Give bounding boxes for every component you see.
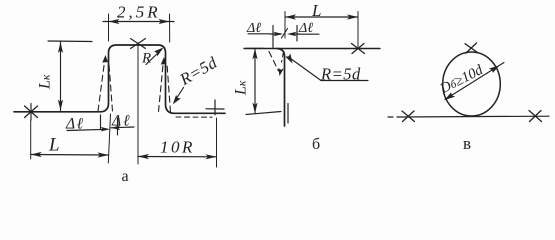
node X mark at hat top <box>131 39 146 49</box>
svg-text:в: в <box>463 134 471 153</box>
dashed hook (right leg, pre-bend position) <box>159 60 164 112</box>
bar end tick (fig b bottom) <box>287 104 289 124</box>
dimension Lk (fig a) line with arrows <box>60 42 62 111</box>
dimension L (fig a) line with arrows <box>31 154 109 157</box>
dimension Lk (fig a) top extension line <box>48 40 92 43</box>
svg-text:2,5R: 2,5R <box>117 3 161 22</box>
dimension delta-l right (fig b) <box>296 26 298 42</box>
svg-text:10R: 10R <box>160 138 195 157</box>
dimension Lk (fig b) line with arrows <box>254 49 256 114</box>
dashed pre-bend hook (fig b) <box>269 52 279 72</box>
dimension delta-l right (fig a): tick, label, line <box>117 118 119 135</box>
dimension L (fig a) extension lines <box>30 120 32 159</box>
svg-text:Lк: Lк <box>37 74 54 90</box>
wire: bent-down leg of figure b <box>277 49 285 127</box>
svg-text:R=5d: R=5d <box>320 65 361 84</box>
dashed hook (left leg, pre-bend position) <box>98 58 105 111</box>
wire: straight bar of figure b (horizontal line) <box>244 48 380 50</box>
node X mark on line (fig b right) <box>352 44 365 54</box>
slash tick on extension at x=285 (fig b) <box>282 29 288 39</box>
diameter line with arrows (fig v) <box>445 63 504 100</box>
wire: baseline of figure v <box>388 116 393 118</box>
dimension 2,5R line with arrows <box>103 21 174 23</box>
svg-text:L: L <box>48 135 60 156</box>
svg-text:L: L <box>311 1 321 20</box>
wire: bent bar of figure a (baseline + hat) <box>14 45 225 113</box>
dimension L (fig b) line with arrows <box>285 16 358 18</box>
dimension Lk (fig b) top and bottom extension ticks <box>246 47 264 49</box>
svg-text:а: а <box>122 168 129 185</box>
dimension delta-l left (fig a): tick, label, line <box>100 115 102 130</box>
dimension L (fig b) extension lines <box>284 12 286 39</box>
node X mark left (fig v) <box>402 111 415 122</box>
dashed original bar position under right baseline <box>176 116 212 118</box>
bar end mark (right end of figure a) <box>206 108 224 110</box>
node X mark at circle top <box>465 44 478 53</box>
node: axis/center line of hat <box>137 44 139 164</box>
dimension 10R extension line (right) <box>216 118 218 167</box>
label R=5d (fig b) with leader to the bend <box>285 54 292 64</box>
dimension 2,5R extension lines <box>108 14 110 41</box>
dimension 10R line with arrows <box>138 156 217 158</box>
node X mark right (fig v) <box>529 111 542 122</box>
svg-text:б: б <box>312 136 320 153</box>
circle: coiled bar (fig v) <box>443 52 501 116</box>
svg-text:Lк: Lк <box>233 80 250 96</box>
node X mark at baseline left end <box>25 106 38 118</box>
